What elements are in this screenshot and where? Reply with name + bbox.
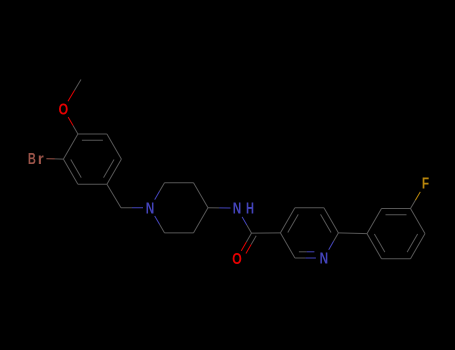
bond C(O)-C3 pyridine: [252, 232, 281, 234]
fluorophenyl edge C2=C3: [382, 208, 411, 210]
benzylic bond C1-CH2: [107, 184, 121, 208]
bond O-CH3 (methoxy methyl): [68, 90, 75, 101]
svg-text:O: O: [59, 102, 69, 119]
svg-text:O: O: [232, 251, 242, 268]
pyridine edge N1=C2: [305, 257, 316, 259]
benzene Ar1 edge C3-C4: [63, 134, 78, 159]
svg-text:B: B: [28, 151, 36, 168]
piperidine edge C3-C4: [194, 183, 209, 208]
svg-text:N: N: [146, 200, 155, 217]
bond C4-NH (amide N): [208, 207, 219, 209]
svg-text:F: F: [422, 176, 429, 193]
benzene Ar1 edge C5-C6: [107, 134, 122, 159]
bond C3-Br: [55, 158, 64, 160]
benzene Ar1 edge C4=C5: [78, 133, 107, 135]
piperidine edge C2-C3: [165, 182, 194, 184]
pyridine edge C2-C3: [280, 233, 295, 258]
fluorophenyl edge C5-C6: [382, 258, 411, 260]
carbonyl double bond C=O: [246, 233, 251, 242]
piperidine edge C4-C5: [194, 208, 209, 233]
pyridine edge C5=C6: [324, 208, 339, 233]
svg-text:N: N: [233, 201, 242, 218]
bond C3-F: [411, 200, 416, 208]
fluorophenyl edge C1-C2: [367, 209, 382, 234]
bond O-C4 (aryl-OMe): [68, 117, 73, 125]
benzene Ar1 edge C2=C3: [63, 159, 78, 184]
fluorophenyl edge C6=C1: [367, 234, 382, 259]
fluorophenyl edge C3-C4: [411, 209, 426, 234]
biaryl bond C6-phenyl: [338, 232, 367, 235]
bond CH2-N piperidine: [121, 207, 132, 209]
svg-text:H: H: [246, 201, 254, 218]
pyridine edge C3=C4: [280, 208, 295, 233]
benzene Ar1 edge C1-C2: [78, 183, 107, 185]
svg-text:r: r: [38, 151, 44, 168]
piperidine edge N-C2: [155, 191, 160, 199]
pyridine edge C6-N1: [334, 233, 339, 241]
benzene Ar1 edge C6=C1: [107, 159, 122, 184]
piperidine edge C5-C6: [165, 232, 194, 234]
bond NH-C carbonyl: [242, 217, 247, 225]
svg-text:N: N: [320, 251, 329, 268]
piperidine edge C6-N: [160, 224, 165, 232]
fluorophenyl edge C4=C5: [411, 234, 426, 259]
pyridine edge C4-C5: [295, 207, 324, 209]
